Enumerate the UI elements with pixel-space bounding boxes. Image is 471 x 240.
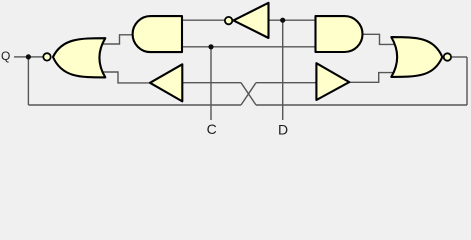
and-gate U2 (left-facing)	[133, 16, 182, 52]
and-gate U4 (right-facing)	[316, 16, 363, 52]
wire Q to junction	[14, 56, 28, 58]
wire D input vertical	[282, 20, 284, 120]
wire crossover X diagonal B	[241, 83, 256, 105]
svg-text:D: D	[278, 121, 288, 135]
wire U4 output to U5 upper input	[362, 34, 395, 44]
junction dot at D node	[280, 18, 285, 23]
wire C row U2 lower input to U4 lower input	[182, 46, 317, 48]
svg-text:C: C	[207, 121, 217, 135]
wire D node to U3 input and U4 upper input	[269, 19, 317, 21]
wire U7 output to U5 lower input	[349, 73, 395, 83]
nor-gate U5 (right-facing OR body)	[391, 37, 442, 77]
wire buffer U7 input from X	[256, 82, 317, 84]
buffer U6 (left-pointing triangle)	[150, 64, 182, 101]
junction dot at Q node	[26, 54, 31, 59]
inverter U3 output bubble	[225, 17, 232, 24]
wire bottom feedback left segment	[28, 104, 241, 106]
inverter U3 (left-pointing triangle)	[233, 3, 268, 38]
wire Q feedback down-left vertical	[27, 57, 29, 105]
wire bottom feedback right segment	[256, 104, 467, 106]
nor-gate U1 output bubble	[43, 53, 50, 60]
nor-gate U1 (left-facing OR body)	[53, 38, 105, 77]
svg-text:Q: Q	[1, 49, 10, 63]
wire right vertical from U5 output	[466, 57, 468, 105]
wire junction to U1 output bubble	[28, 56, 43, 58]
wire U3 output bubble to U2 upper input	[182, 19, 225, 21]
wire U2 output to U1 upper input	[102, 35, 134, 44]
junction dot at C row	[208, 44, 213, 49]
buffer U7 (right-pointing triangle)	[316, 63, 349, 100]
wire U5 bubble to right vertical	[452, 56, 467, 58]
wire C input vertical	[210, 47, 212, 120]
nor-gate U5 output bubble	[444, 53, 451, 60]
wire U6 output to U1 lower input	[102, 72, 150, 83]
wire crossover X diagonal A	[241, 83, 256, 105]
wire buffer U6 input from X	[183, 82, 241, 84]
